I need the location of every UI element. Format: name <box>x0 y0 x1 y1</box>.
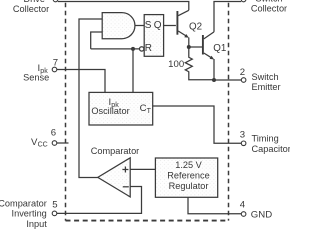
label pin2 Switch Emitter <box>252 72 281 92</box>
svg-text:GND: GND <box>251 209 272 220</box>
svg-text:4: 4 <box>240 200 246 211</box>
label pin8 Drive Collector <box>13 0 49 14</box>
svg-text:Q: Q <box>154 20 162 31</box>
svg-text:Capacitor: Capacitor <box>252 144 291 154</box>
pin 8 terminal circle <box>53 0 58 2</box>
svg-text:Input: Input <box>26 219 47 229</box>
transistor Q2 <box>177 10 202 38</box>
pin 5 terminal circle <box>52 211 57 216</box>
wire pin5 to comparator inverting input <box>57 187 142 214</box>
wire oscillator node to R input bubble <box>91 48 140 50</box>
svg-text:Comparator: Comparator <box>91 146 140 156</box>
pin 1 terminal circle <box>241 0 246 2</box>
svg-text:Collector: Collector <box>251 4 287 14</box>
svg-text:Sense: Sense <box>23 72 49 82</box>
svg-text:Emitter: Emitter <box>252 82 281 92</box>
svg-text:Collector: Collector <box>13 4 49 14</box>
svg-text:T: T <box>147 108 152 115</box>
wire AND output to latch S input <box>135 25 144 27</box>
svg-text:Oscillator: Oscillator <box>91 106 129 116</box>
svg-text:R: R <box>145 43 152 54</box>
wire oscillator node down to oscillator box <box>132 49 134 93</box>
svg-text:C: C <box>140 103 147 114</box>
wire Q1 emitter down to pin2 node <box>213 59 215 80</box>
wire oscillator CT to pin3 <box>153 106 242 143</box>
wire resistor bottom to pin2 node <box>189 72 214 80</box>
svg-text:7: 7 <box>53 57 58 68</box>
comparator U3 <box>91 146 140 197</box>
svg-text:Switch: Switch <box>252 72 279 82</box>
label pin2 number <box>240 67 245 78</box>
resistor 100 ohm <box>168 47 192 72</box>
junction dot at oscillator/AND/R node <box>131 47 135 51</box>
wire pin6 stub <box>57 142 69 144</box>
svg-text:Timing: Timing <box>252 134 279 144</box>
SR latch U2 <box>144 15 163 57</box>
IC package dashed border right <box>228 0 230 221</box>
AND gate U1 <box>102 13 135 39</box>
svg-text:1.25 V: 1.25 V <box>175 160 202 170</box>
wire pin8 to Q2 collector <box>58 2 189 11</box>
pin 6 terminal circle <box>52 141 57 146</box>
label pin4 GND <box>251 209 272 220</box>
svg-text:S: S <box>145 20 152 31</box>
oscillator box <box>89 92 153 125</box>
pin 7 terminal circle <box>52 67 57 72</box>
R input inverting bubble <box>140 47 144 51</box>
label pin5 Comparator Inverting Input <box>0 198 47 228</box>
label pin5 number <box>52 200 57 211</box>
svg-text:6: 6 <box>51 127 56 138</box>
label pin7 number <box>53 57 58 68</box>
wire pin1 to Q1 collector <box>214 2 241 32</box>
wire oscillator output to AND gate lower input <box>91 32 103 49</box>
svg-text:100: 100 <box>168 59 184 70</box>
wire pin7 to oscillator <box>57 70 105 93</box>
label pin3 number <box>240 130 245 141</box>
wire comparator noninverting input to reference regulator <box>130 168 155 170</box>
svg-text:2: 2 <box>240 67 245 78</box>
junction dot pin2 node <box>212 78 216 82</box>
svg-text:CC: CC <box>38 142 48 149</box>
svg-text:Inverting: Inverting <box>12 209 47 219</box>
pin 4 terminal circle <box>241 212 246 217</box>
junction dot Q2 emitter node <box>187 45 191 49</box>
svg-text:3: 3 <box>240 130 245 141</box>
transistor Q1 <box>203 32 226 60</box>
wire comparator output to AND gate input <box>79 19 102 178</box>
svg-text:Q1: Q1 <box>213 43 226 54</box>
wire node to Q1 base <box>189 46 203 48</box>
svg-text:5: 5 <box>52 200 57 211</box>
label pin3 Timing Capacitor <box>252 134 291 154</box>
pin 3 terminal circle <box>241 141 246 146</box>
svg-text:Regulator: Regulator <box>169 181 209 191</box>
label pin4 number <box>240 200 246 211</box>
label pin6 VCC <box>31 137 48 149</box>
label pin1 Switch Collector <box>251 0 287 14</box>
IC package dashed border bottom <box>66 220 229 222</box>
wire latch Q output to Q2 base <box>164 25 176 27</box>
1.25V reference regulator box <box>155 158 217 197</box>
wire pin2 node to pin2 <box>214 79 241 81</box>
wire Q2 emitter to node <box>188 38 190 48</box>
wire reference regulator to pin4 GND <box>188 197 241 214</box>
svg-text:Comparator: Comparator <box>0 198 47 208</box>
IC package dashed border left <box>65 0 67 221</box>
svg-text:Reference: Reference <box>167 171 209 181</box>
svg-text:Q2: Q2 <box>189 22 202 33</box>
label pin7 Ipk Sense <box>23 63 49 83</box>
pin 2 terminal circle <box>241 78 246 83</box>
label pin6 number <box>51 127 56 138</box>
